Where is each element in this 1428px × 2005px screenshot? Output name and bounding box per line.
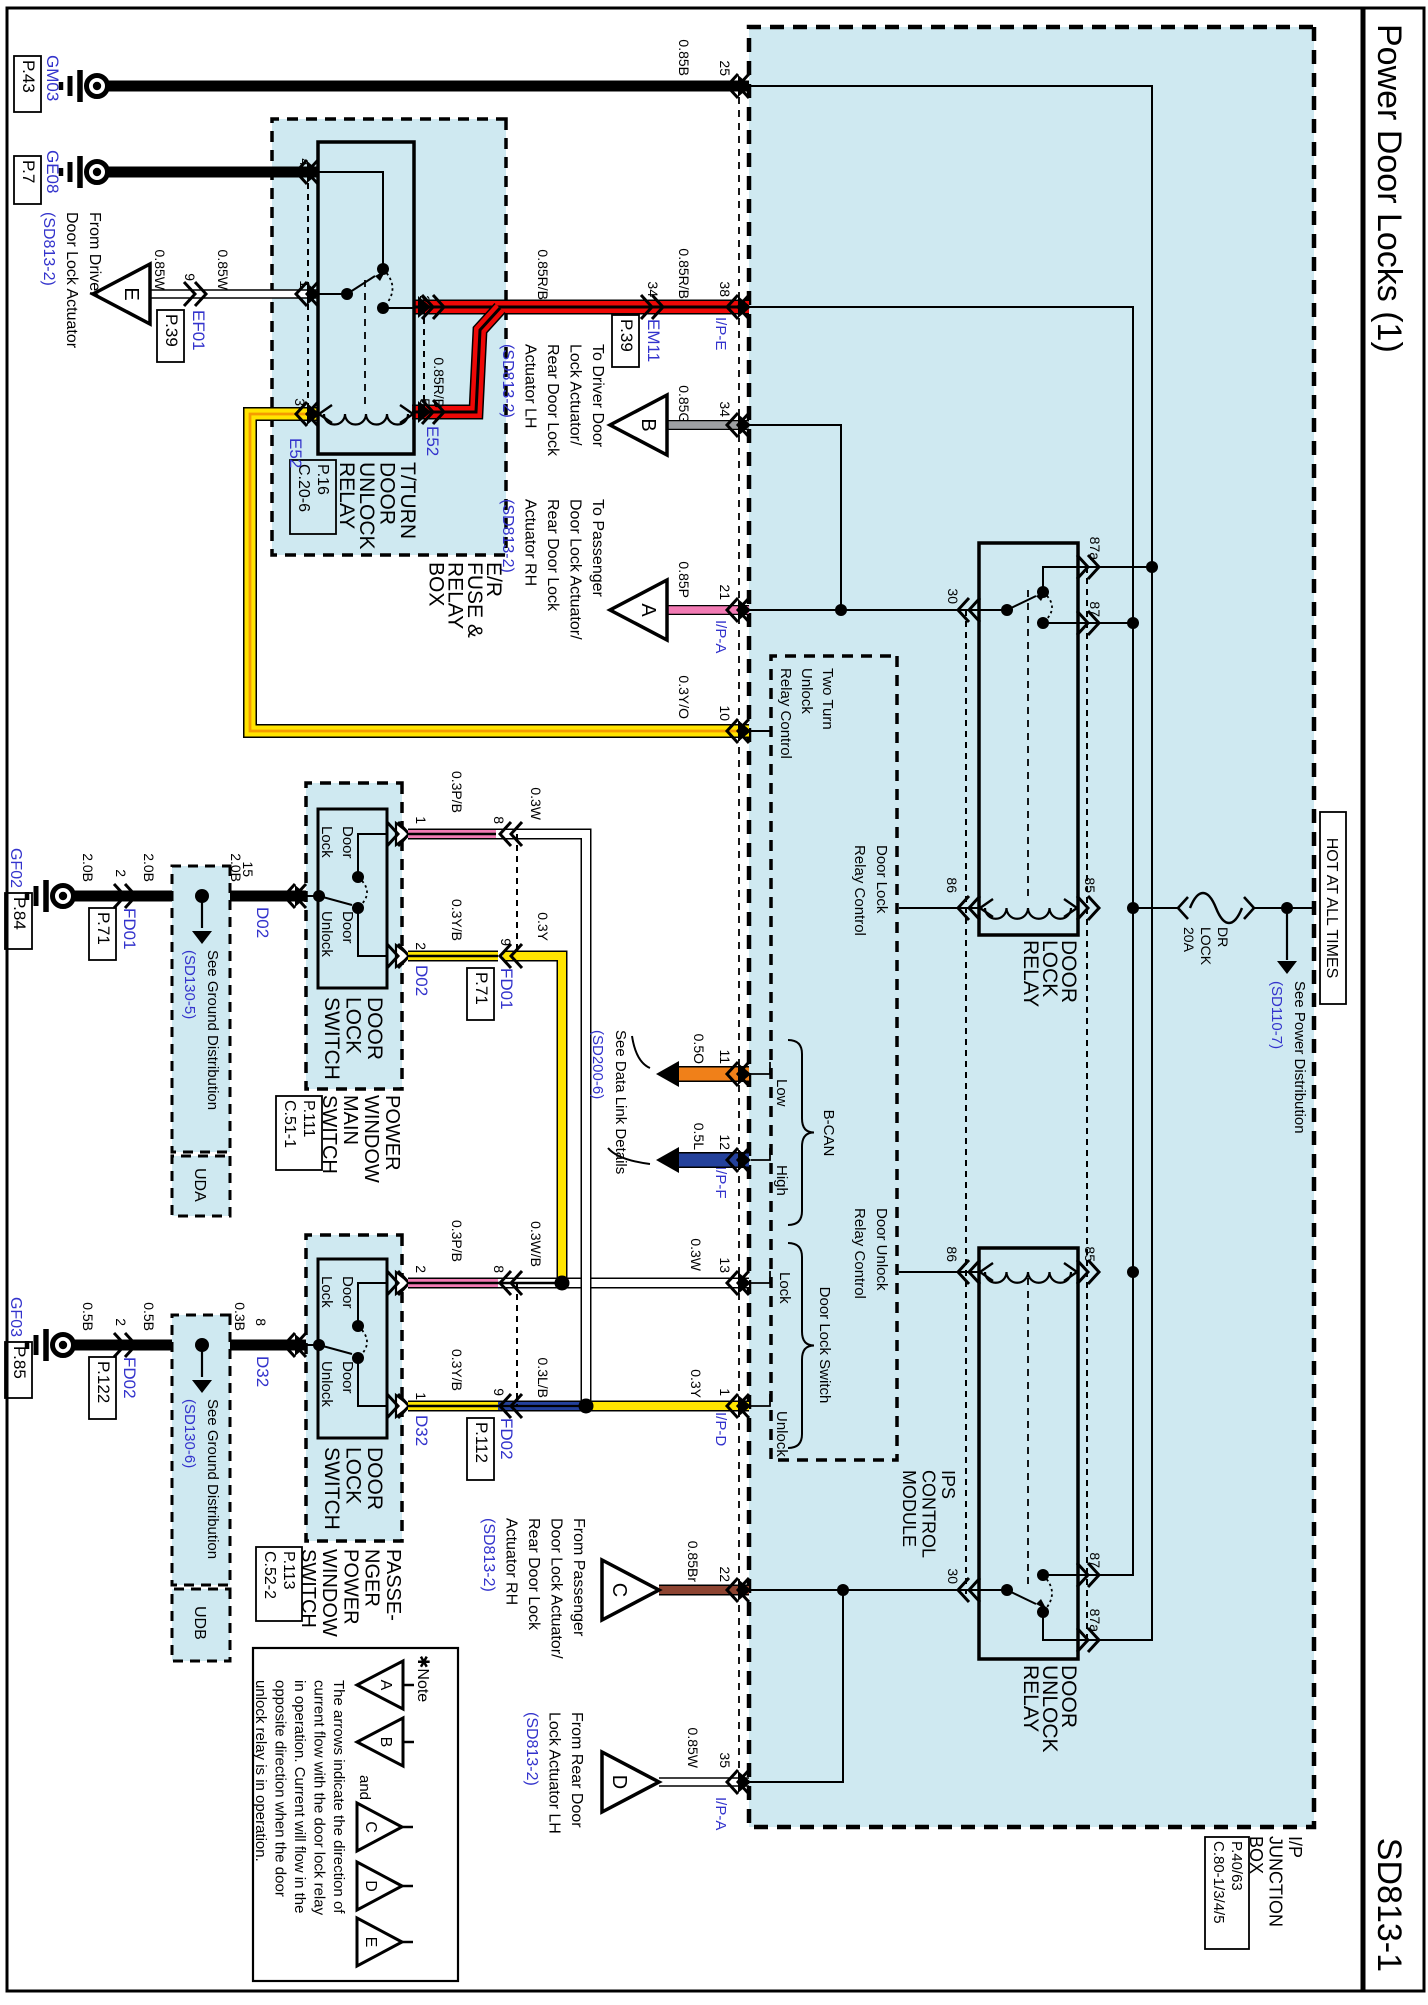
svg-text:current flow with the door loc: current flow with the door lock relay xyxy=(311,1680,328,1916)
svg-text:MAIN: MAIN xyxy=(339,1095,361,1145)
svg-text:8: 8 xyxy=(491,816,507,824)
svg-text:FD02: FD02 xyxy=(497,1418,516,1460)
svg-text:WINDOW: WINDOW xyxy=(360,1095,382,1183)
svg-text:0.5L: 0.5L xyxy=(691,1123,707,1150)
svg-text:5: 5 xyxy=(417,398,433,406)
svg-text:E: E xyxy=(362,1937,379,1948)
svg-text:I/P: I/P xyxy=(1285,1836,1305,1858)
svg-text:NGER: NGER xyxy=(361,1549,383,1607)
svg-text:(SD813-2): (SD813-2) xyxy=(523,1712,540,1786)
svg-text:Door Lock Actuator/: Door Lock Actuator/ xyxy=(548,1518,565,1659)
svg-text:38: 38 xyxy=(717,281,733,297)
svg-text:2: 2 xyxy=(113,869,129,877)
svg-text:P.40/63: P.40/63 xyxy=(1228,1841,1245,1891)
svg-text:EM11: EM11 xyxy=(644,319,663,362)
svg-text:GF03: GF03 xyxy=(7,1297,24,1337)
svg-text:Actuator RH: Actuator RH xyxy=(522,499,539,586)
svg-text:P.122: P.122 xyxy=(94,1361,113,1403)
svg-text:0.85W: 0.85W xyxy=(685,1728,701,1769)
svg-text:0.85R/B: 0.85R/B xyxy=(676,248,692,299)
svg-text:0.85W: 0.85W xyxy=(215,250,231,291)
svg-text:IPS: IPS xyxy=(938,1470,958,1499)
svg-text:Unlock: Unlock xyxy=(798,668,815,714)
svg-text:BOX: BOX xyxy=(424,562,447,606)
svg-text:GF02: GF02 xyxy=(7,848,24,888)
svg-text:0.5B: 0.5B xyxy=(80,1302,96,1331)
svg-text:85: 85 xyxy=(1082,877,1098,893)
svg-text:P.113: P.113 xyxy=(280,1551,297,1590)
svg-text:I/P-F: I/P-F xyxy=(712,1166,729,1199)
svg-text:0.3W: 0.3W xyxy=(688,1238,704,1271)
svg-text:1: 1 xyxy=(717,1388,733,1396)
svg-text:LOCK: LOCK xyxy=(342,1447,365,1504)
svg-text:E: E xyxy=(120,287,142,300)
svg-text:FD02: FD02 xyxy=(120,1357,139,1399)
svg-text:P.39: P.39 xyxy=(617,319,636,352)
svg-text:FD01: FD01 xyxy=(120,908,139,950)
svg-text:Rear Door Lock: Rear Door Lock xyxy=(544,344,561,457)
svg-text:(SD130-5): (SD130-5) xyxy=(181,950,198,1019)
svg-text:1: 1 xyxy=(413,816,429,824)
svg-text:I/P-A: I/P-A xyxy=(712,620,729,653)
svg-text:(SD130-6): (SD130-6) xyxy=(181,1399,198,1468)
svg-text:WINDOW: WINDOW xyxy=(318,1549,340,1637)
svg-text:21: 21 xyxy=(717,584,733,600)
svg-text:See Ground Distribution: See Ground Distribution xyxy=(204,950,221,1110)
svg-text:From Passenger: From Passenger xyxy=(570,1518,587,1637)
svg-text:0.5B: 0.5B xyxy=(141,1302,157,1331)
svg-text:Door: Door xyxy=(339,826,356,859)
svg-text:9: 9 xyxy=(182,273,198,281)
svg-text:MODULE: MODULE xyxy=(899,1470,919,1547)
svg-text:P.85: P.85 xyxy=(10,1346,29,1379)
svg-text:RELAY: RELAY xyxy=(1019,940,1042,1007)
svg-text:E52: E52 xyxy=(286,438,305,468)
svg-text:P.111: P.111 xyxy=(300,1100,317,1137)
svg-text:B: B xyxy=(637,418,659,431)
svg-text:D32: D32 xyxy=(253,1356,272,1387)
svg-text:4: 4 xyxy=(297,158,313,166)
svg-text:0.85B: 0.85B xyxy=(676,39,692,76)
svg-text:0.3W: 0.3W xyxy=(528,787,544,820)
svg-text:RELAY: RELAY xyxy=(1019,1665,1042,1732)
svg-text:FD01: FD01 xyxy=(497,968,516,1010)
svg-text:P.71: P.71 xyxy=(472,972,491,1005)
svg-text:A: A xyxy=(637,603,659,617)
svg-text:DR: DR xyxy=(1215,927,1231,947)
svg-text:0.3P/B: 0.3P/B xyxy=(449,771,465,813)
svg-text:20A: 20A xyxy=(1181,927,1197,953)
svg-text:Unlock: Unlock xyxy=(318,1361,335,1407)
svg-text:0.85Br: 0.85Br xyxy=(685,1541,701,1583)
svg-text:Low: Low xyxy=(773,1079,790,1107)
svg-text:UDA: UDA xyxy=(191,1168,208,1202)
svg-text:0.3L/B: 0.3L/B xyxy=(535,1358,551,1398)
svg-text:9: 9 xyxy=(491,1388,507,1396)
svg-text:High: High xyxy=(773,1165,790,1196)
svg-text:30: 30 xyxy=(945,1568,961,1584)
svg-text:I/P-A: I/P-A xyxy=(712,1797,729,1830)
svg-text:E52: E52 xyxy=(423,426,442,456)
svg-text:Door: Door xyxy=(339,1276,356,1309)
svg-text:0.3P/B: 0.3P/B xyxy=(449,1220,465,1262)
svg-text:From Rear Door: From Rear Door xyxy=(568,1712,585,1828)
svg-text:(SD813-2): (SD813-2) xyxy=(480,1518,497,1592)
svg-text:25: 25 xyxy=(717,60,733,76)
svg-text:From Driver: From Driver xyxy=(86,212,103,297)
svg-text:D: D xyxy=(608,1775,630,1789)
svg-text:Door Lock: Door Lock xyxy=(873,845,890,914)
svg-text:(SD813-2): (SD813-2) xyxy=(499,344,516,418)
svg-text:C: C xyxy=(608,1583,630,1597)
svg-text:To Driver Door: To Driver Door xyxy=(589,344,606,448)
svg-text:P.7: P.7 xyxy=(19,160,38,183)
svg-text:35: 35 xyxy=(717,1752,733,1768)
svg-text:B-CAN: B-CAN xyxy=(820,1110,837,1157)
svg-text:See Power Distribution: See Power Distribution xyxy=(1291,981,1308,1134)
svg-text:13: 13 xyxy=(717,1257,733,1273)
svg-text:Door Lock Actuator: Door Lock Actuator xyxy=(63,212,80,349)
svg-text:86: 86 xyxy=(944,877,960,893)
svg-text:See Ground Distribution: See Ground Distribution xyxy=(204,1399,221,1559)
svg-text:P.84: P.84 xyxy=(10,897,29,930)
svg-text:Door Lock Actuator/: Door Lock Actuator/ xyxy=(567,499,584,640)
svg-text:1: 1 xyxy=(413,1392,429,1400)
svg-text:Lock: Lock xyxy=(318,1276,335,1308)
svg-text:3: 3 xyxy=(292,398,308,406)
svg-text:GE08: GE08 xyxy=(43,150,62,193)
svg-text:2: 2 xyxy=(113,1318,129,1326)
svg-text:B: B xyxy=(377,1737,394,1748)
svg-text:A: A xyxy=(377,1680,394,1691)
svg-text:(SD813-2): (SD813-2) xyxy=(40,212,57,286)
svg-text:2: 2 xyxy=(413,1265,429,1273)
svg-text:Two Turn: Two Turn xyxy=(819,668,836,730)
svg-text:I/P-E: I/P-E xyxy=(712,317,729,350)
svg-text:0.3Y: 0.3Y xyxy=(688,1369,704,1398)
svg-text:To Passenger: To Passenger xyxy=(589,499,606,598)
svg-text:DOOR: DOOR xyxy=(363,1447,386,1510)
svg-text:34: 34 xyxy=(645,281,661,297)
svg-text:The arrows indicate the direct: The arrows indicate the direction of xyxy=(330,1680,347,1914)
svg-text:SWITCH: SWITCH xyxy=(320,1447,343,1530)
svg-text:8: 8 xyxy=(491,1265,507,1273)
svg-text:0.3W/B: 0.3W/B xyxy=(528,1221,544,1267)
svg-text:SWITCH: SWITCH xyxy=(320,997,343,1080)
svg-text:LOCK: LOCK xyxy=(1198,927,1214,966)
svg-text:UDB: UDB xyxy=(191,1606,208,1640)
svg-text:86: 86 xyxy=(944,1246,960,1262)
svg-text:Relay Control: Relay Control xyxy=(851,1208,868,1299)
svg-text:0.85R/B: 0.85R/B xyxy=(535,249,551,300)
svg-text:0.5O: 0.5O xyxy=(691,1034,707,1064)
svg-text:✱Note: ✱Note xyxy=(414,1655,431,1702)
svg-text:Rear Door Lock: Rear Door Lock xyxy=(544,499,561,612)
svg-text:8: 8 xyxy=(253,1318,269,1326)
svg-text:30: 30 xyxy=(945,588,961,604)
svg-text:Rear Door Lock: Rear Door Lock xyxy=(525,1518,542,1631)
svg-text:LOCK: LOCK xyxy=(342,997,365,1054)
svg-text:C.20-6: C.20-6 xyxy=(295,464,312,512)
svg-text:POWER: POWER xyxy=(339,1549,361,1625)
svg-text:Door: Door xyxy=(339,1361,356,1394)
svg-text:Actuator RH: Actuator RH xyxy=(503,1518,520,1605)
svg-text:0.3Y/B: 0.3Y/B xyxy=(449,1349,465,1391)
svg-text:SD813-1: SD813-1 xyxy=(1370,1838,1408,1972)
svg-text:RELAY: RELAY xyxy=(335,462,358,529)
svg-text:C.52-2: C.52-2 xyxy=(261,1551,278,1599)
svg-text:1: 1 xyxy=(297,280,313,288)
svg-text:JUNCTION: JUNCTION xyxy=(1266,1836,1286,1927)
svg-text:I/P-D: I/P-D xyxy=(712,1412,729,1446)
svg-text:Door Unlock: Door Unlock xyxy=(873,1208,890,1291)
svg-text:SWITCH: SWITCH xyxy=(297,1549,319,1628)
svg-text:C.51-1: C.51-1 xyxy=(281,1100,298,1148)
svg-text:2: 2 xyxy=(417,295,433,303)
svg-text:11: 11 xyxy=(717,1049,733,1064)
svg-text:CONTROL: CONTROL xyxy=(919,1470,939,1558)
svg-text:34: 34 xyxy=(717,401,733,417)
svg-text:P.71: P.71 xyxy=(94,912,113,945)
svg-text:0.3Y/B: 0.3Y/B xyxy=(449,899,465,941)
svg-text:(SD200-6): (SD200-6) xyxy=(589,1030,606,1099)
svg-text:D: D xyxy=(362,1880,379,1892)
svg-text:C.80-1/3/4/5: C.80-1/3/4/5 xyxy=(1210,1841,1227,1924)
svg-text:Unlock: Unlock xyxy=(318,911,335,957)
svg-text:P.39: P.39 xyxy=(162,314,181,347)
svg-text:D02: D02 xyxy=(412,965,431,996)
svg-text:Lock: Lock xyxy=(776,1272,793,1304)
svg-text:P.43: P.43 xyxy=(19,60,38,93)
svg-text:87: 87 xyxy=(1087,601,1103,617)
svg-text:2.0B: 2.0B xyxy=(141,853,157,882)
svg-text:Lock Actuator LH: Lock Actuator LH xyxy=(546,1712,563,1834)
svg-text:Lock Actuator/: Lock Actuator/ xyxy=(567,344,584,446)
svg-text:85: 85 xyxy=(1082,1246,1098,1262)
svg-text:D32: D32 xyxy=(412,1415,431,1446)
svg-text:POWER: POWER xyxy=(381,1095,403,1171)
svg-text:P.16: P.16 xyxy=(314,464,331,495)
svg-text:(SD110-7): (SD110-7) xyxy=(1268,981,1285,1049)
svg-text:0.3Y/O: 0.3Y/O xyxy=(676,675,692,719)
svg-text:Door Lock Switch: Door Lock Switch xyxy=(816,1287,833,1404)
svg-text:C: C xyxy=(362,1821,379,1833)
svg-text:Lock: Lock xyxy=(318,826,335,858)
svg-text:EF01: EF01 xyxy=(189,310,208,351)
svg-text:HOT AT ALL TIMES: HOT AT ALL TIMES xyxy=(1323,838,1340,979)
svg-text:0.3Y: 0.3Y xyxy=(535,912,551,941)
svg-text:2.0B: 2.0B xyxy=(80,853,96,882)
svg-text:0.85P: 0.85P xyxy=(676,561,692,598)
svg-text:unlock relay is in operation.: unlock relay is in operation. xyxy=(252,1680,269,1862)
svg-text:Relay Control: Relay Control xyxy=(851,845,868,936)
svg-text:Actuator LH: Actuator LH xyxy=(522,344,539,428)
svg-text:0.85W: 0.85W xyxy=(152,250,168,291)
svg-text:DOOR: DOOR xyxy=(363,997,386,1060)
svg-text:in operation. Current will flo: in operation. Current will flow in the xyxy=(291,1680,308,1913)
svg-text:PASSE-: PASSE- xyxy=(382,1549,404,1621)
svg-text:GM03: GM03 xyxy=(43,55,62,101)
svg-text:22: 22 xyxy=(717,1566,733,1582)
svg-text:P.112: P.112 xyxy=(472,1422,491,1463)
svg-text:D02: D02 xyxy=(253,907,272,938)
svg-text:opposite direction when the do: opposite direction when the door xyxy=(272,1680,289,1897)
svg-text:Power Door Locks (1): Power Door Locks (1) xyxy=(1370,24,1408,353)
svg-text:Door: Door xyxy=(339,911,356,944)
svg-text:12: 12 xyxy=(717,1134,733,1150)
svg-text:and: and xyxy=(356,1775,373,1800)
svg-text:0.3B: 0.3B xyxy=(232,1302,248,1331)
svg-text:Relay Control: Relay Control xyxy=(777,668,794,759)
svg-text:9: 9 xyxy=(498,938,514,946)
svg-text:2: 2 xyxy=(413,942,429,950)
svg-text:10: 10 xyxy=(717,705,733,721)
svg-text:Unlock: Unlock xyxy=(773,1411,790,1457)
